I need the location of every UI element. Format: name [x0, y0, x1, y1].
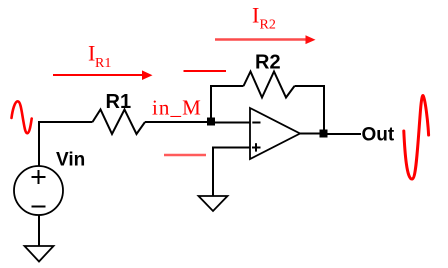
resistor R2 — [244, 72, 295, 98]
resistor R1 — [93, 110, 146, 135]
ground below op-amp — [199, 196, 228, 211]
label I_R1 — [88, 41, 111, 72]
svg-text:in_M: in_M — [152, 96, 202, 120]
input sine wave annotation — [12, 101, 32, 133]
node in_M — [207, 118, 215, 126]
current arrow I_R2 — [215, 35, 316, 44]
op-amp minus sign — [252, 122, 260, 124]
svg-text:Vin: Vin — [56, 150, 85, 171]
wire: source bottom to ground — [38, 215, 40, 246]
svg-text:R1: R1 — [106, 91, 132, 113]
svg-text:Out: Out — [362, 125, 395, 146]
wire: feedback from node up and right to R2 — [211, 86, 244, 122]
svg-text:R2: R2 — [260, 18, 276, 33]
op-amp U1 — [250, 108, 300, 159]
wire: node to op-amp inverting input — [211, 122, 250, 124]
node Out — [320, 130, 328, 138]
voltage source Vin — [14, 166, 63, 215]
red dash annotation at inverting input — [184, 70, 227, 72]
label I_R2 — [252, 3, 276, 33]
ground below Vin — [25, 246, 54, 262]
svg-text:I: I — [252, 3, 259, 28]
wire: Vin top to R1 — [39, 122, 93, 166]
svg-text:R2: R2 — [255, 52, 281, 74]
voltage source minus sign — [32, 206, 46, 208]
wire: op-amp output to node — [300, 133, 320, 135]
wire: R2 to output node (right vertical) — [295, 86, 325, 130]
wire: R1 to node in_M — [145, 121, 211, 123]
voltage source plus sign — [32, 170, 46, 184]
wire: op-amp non-inverting input down to ground — [213, 148, 250, 197]
current arrow I_R1 — [53, 70, 153, 80]
op-amp plus sign — [252, 143, 261, 151]
output sine wave annotation — [404, 96, 429, 179]
red dash annotation at non-inverting input — [164, 154, 206, 157]
wire: node to Out label — [327, 133, 361, 135]
svg-text:R1: R1 — [95, 56, 111, 71]
